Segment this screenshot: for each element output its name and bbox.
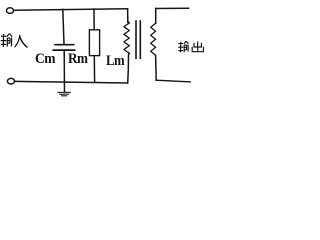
input terminal top	[6, 8, 13, 14]
capacitor Cm top plate	[55, 44, 74, 46]
输 left radical	[1, 35, 6, 37]
输 right part roof	[7, 34, 10, 37]
wire primary top lead	[127, 9, 129, 22]
transformer core bar left	[135, 21, 137, 58]
label 输入 (input) hand-drawn glyphs	[1, 34, 28, 48]
wire capacitor top lead	[63, 9, 64, 44]
入	[15, 35, 20, 47]
出	[197, 41, 199, 51]
wire resistor top lead	[93, 9, 95, 30]
wire secondary bottom lead	[155, 55, 158, 80]
label Rm	[68, 51, 87, 68]
wire output top	[156, 7, 189, 9]
wire secondary top lead	[155, 9, 157, 24]
输 left radical	[178, 43, 183, 45]
label 输出 (output) hand-drawn glyphs	[178, 41, 203, 52]
secondary coil	[151, 23, 156, 55]
input terminal bottom	[7, 78, 14, 84]
输 roof	[184, 41, 186, 44]
inductor Lm primary coil	[124, 22, 129, 54]
wire capacitor bottom lead to ground	[63, 50, 65, 91]
输 right body	[6, 38, 8, 47]
wire resistor bottom lead	[93, 56, 95, 82]
输 body	[183, 45, 185, 52]
resistor Rm box	[89, 30, 99, 56]
wire top rail	[14, 9, 128, 10]
label Cm	[35, 51, 55, 68]
transformer core bar right	[139, 21, 141, 58]
label Lm	[106, 53, 124, 70]
ground	[58, 92, 70, 95]
capacitor Cm bottom plate	[53, 49, 74, 51]
wire bottom rail	[15, 81, 128, 83]
wire primary bottom lead	[128, 53, 130, 83]
wire output bottom	[156, 80, 190, 82]
